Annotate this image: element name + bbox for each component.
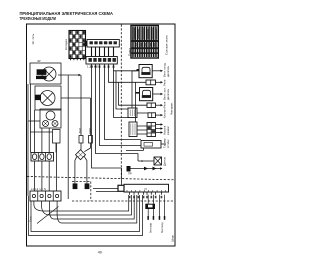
- svg-text:Датчик: Датчик: [163, 156, 167, 166]
- svg-text:Колодка: Колодка: [64, 39, 68, 50]
- svg-text:Вент.мод: Вент.мод: [161, 222, 164, 233]
- svg-text:ПР: ПР: [128, 172, 132, 176]
- svg-text:Клапан: Клапан: [163, 108, 167, 118]
- svg-text:ЗЕЛ: ЗЕЛ: [78, 128, 82, 134]
- svg-text:L1 L2 L3 N: L1 L2 L3 N: [31, 187, 46, 191]
- svg-text:49: 49: [98, 251, 102, 255]
- svg-text:Нагрев: Нагрев: [163, 125, 167, 135]
- svg-text:1 2 3 4 5 6: 1 2 3 4 5 6: [87, 65, 101, 69]
- svg-text:двигатель: двигатель: [167, 88, 170, 100]
- svg-text:Шнур: Шнур: [171, 235, 175, 242]
- svg-text:двигатель: двигатель: [167, 65, 170, 77]
- svg-text:Силовая плата: Силовая плата: [165, 35, 169, 55]
- svg-text:Плата: Плата: [128, 48, 132, 56]
- svg-text:Вент.кам: Вент.кам: [150, 222, 153, 233]
- svg-text:N: N: [145, 187, 147, 191]
- svg-text:Реле: Реле: [163, 101, 167, 108]
- svg-text:4P: 4P: [37, 59, 41, 63]
- svg-text:Эл. сеть: Эл. сеть: [31, 33, 35, 44]
- svg-text:ТРЕХФАЗНЫЕ МОДЕЛИ: ТРЕХФАЗНЫЕ МОДЕЛИ: [20, 16, 57, 21]
- svg-text:Реле врем.: Реле врем.: [170, 102, 173, 115]
- svg-text:КОР: КОР: [88, 128, 92, 134]
- svg-text:оттайки: оттайки: [167, 139, 170, 148]
- svg-text:Сеть: Сеть: [29, 215, 33, 222]
- svg-text:Таймер: Таймер: [163, 138, 167, 148]
- svg-text:элемент: элемент: [167, 125, 170, 135]
- svg-text:Вент. исп.: Вент. исп.: [163, 87, 167, 100]
- svg-text:Реле: Реле: [163, 79, 167, 86]
